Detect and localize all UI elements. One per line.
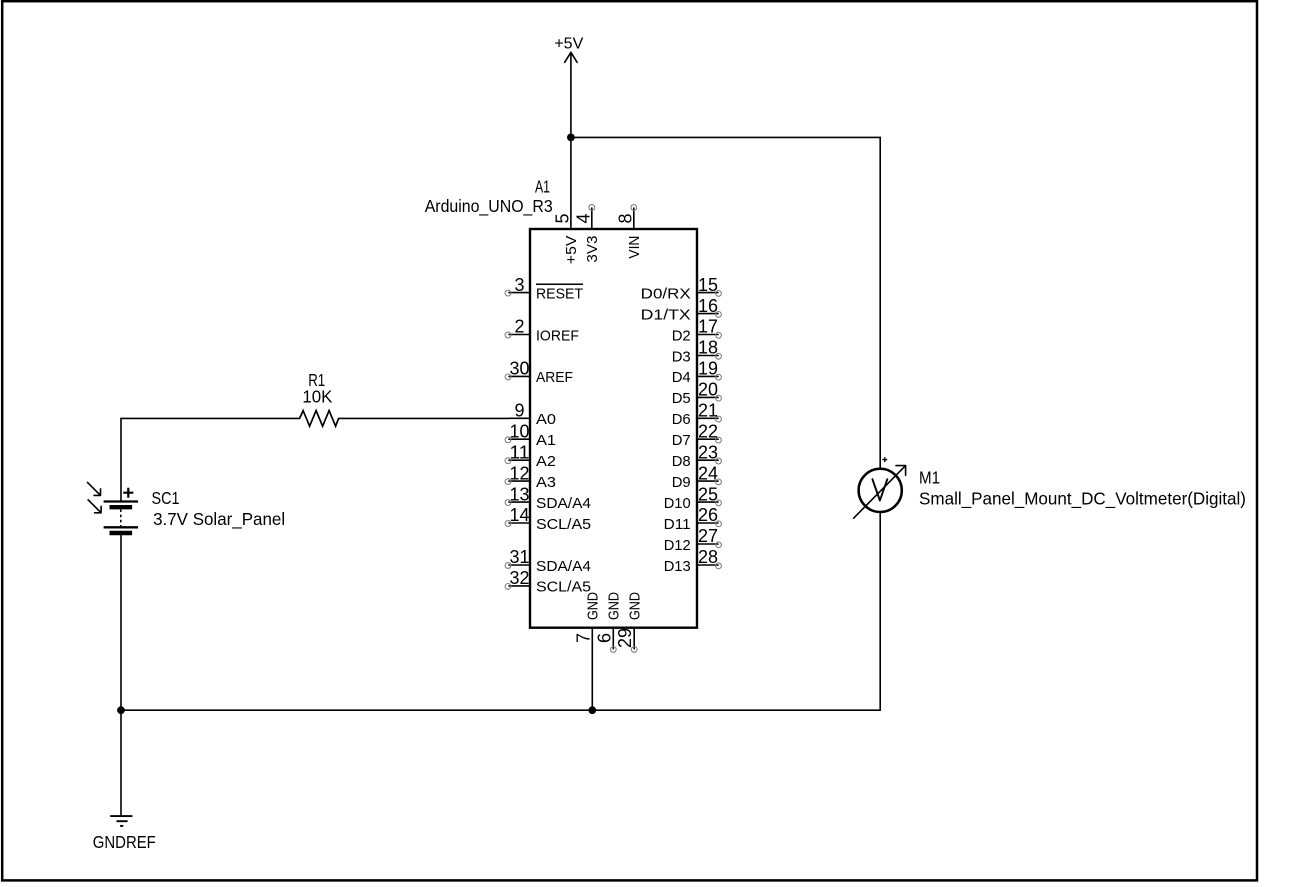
pin 7 (GND) bottom <box>573 592 601 643</box>
svg-text:SCL/A5: SCL/A5 <box>536 516 591 533</box>
svg-text:10: 10 <box>510 421 530 441</box>
svg-text:28: 28 <box>698 547 718 567</box>
svg-text:D7: D7 <box>672 432 691 449</box>
wire solar panel bottom down <box>120 535 122 710</box>
pin 28 (D13) right <box>664 547 722 575</box>
pin 3 (RESET) left <box>505 275 583 303</box>
svg-text:3V3: 3V3 <box>584 236 601 263</box>
svg-text:D4: D4 <box>672 369 691 386</box>
svg-text:24: 24 <box>698 463 718 483</box>
pin 6 (GND) bottom <box>594 592 622 652</box>
svg-text:5: 5 <box>553 213 573 223</box>
pin 2 (IOREF) left <box>505 317 579 345</box>
svg-text:11: 11 <box>510 442 530 462</box>
wire solar panel top to R1 node <box>120 418 122 500</box>
svg-text:+5V: +5V <box>554 36 583 53</box>
svg-text:17: 17 <box>698 317 718 337</box>
svg-text:26: 26 <box>698 505 718 525</box>
pin 32 (SCL/A5) left <box>505 568 591 596</box>
pin 9 (A0) left <box>509 401 556 429</box>
pin 23 (D8) right <box>672 442 722 470</box>
ground GNDREF <box>93 816 156 852</box>
wire to GNDREF <box>120 710 122 815</box>
pin 18 (D3) right <box>672 338 722 366</box>
pin 27 (D12) right <box>664 526 722 554</box>
svg-text:19: 19 <box>698 359 718 379</box>
svg-text:Small_Panel_Mount_DC_Voltmeter: Small_Panel_Mount_DC_Voltmeter(Digital) <box>919 488 1246 509</box>
pin 12 (A3) left <box>505 463 556 491</box>
solar plus sign <box>123 488 133 498</box>
svg-text:A2: A2 <box>536 453 556 470</box>
svg-text:SDA/A4: SDA/A4 <box>536 558 591 575</box>
svg-text:RESET: RESET <box>536 285 583 302</box>
svg-text:D10: D10 <box>664 495 691 512</box>
pin 26 (D11) right <box>664 505 722 533</box>
pin 21 (D6) right <box>672 401 722 429</box>
svg-text:3.7V Solar_Panel: 3.7V Solar_Panel <box>153 509 285 530</box>
svg-text:D12: D12 <box>664 537 691 554</box>
svg-text:D0/RX: D0/RX <box>641 285 691 302</box>
svg-text:18: 18 <box>698 338 718 358</box>
arduino A1 body <box>530 229 697 628</box>
light arrow 1 <box>88 482 101 495</box>
pin 10 (A1) left <box>505 421 556 449</box>
meter arrow <box>854 466 906 519</box>
svg-text:GND: GND <box>626 592 643 620</box>
pin 22 (D7) right <box>672 421 722 449</box>
svg-text:21: 21 <box>698 401 718 421</box>
pin 16 (D1/TX) right <box>641 296 722 324</box>
wire voltmeter bottom vertical <box>879 512 881 710</box>
pin 29 (GND) bottom <box>615 592 643 652</box>
svg-text:AREF: AREF <box>536 369 573 386</box>
wire +5V to voltmeter (horizontal top) <box>571 136 880 138</box>
svg-text:D3: D3 <box>672 348 691 365</box>
svg-text:29: 29 <box>615 628 635 648</box>
svg-text:12: 12 <box>510 463 530 483</box>
svg-text:4: 4 <box>574 213 594 223</box>
svg-text:+5V: +5V <box>563 236 580 265</box>
pin 8 (VIN) top <box>616 205 643 259</box>
wire arduino GND pin7 down <box>591 628 593 711</box>
svg-text:D5: D5 <box>672 390 691 407</box>
pin 17 (D2) right <box>672 317 722 345</box>
pin 31 (SDA/A4) left <box>505 547 591 575</box>
svg-text:SDA/A4: SDA/A4 <box>536 495 591 512</box>
power symbol +5V <box>554 36 583 138</box>
V letter <box>872 479 887 500</box>
svg-text:SCL/A5: SCL/A5 <box>536 579 591 596</box>
svg-text:GND: GND <box>585 592 602 620</box>
voltmeter M1 <box>854 457 1246 518</box>
svg-text:31: 31 <box>510 547 530 567</box>
pin 24 (D9) right <box>672 463 722 491</box>
svg-text:GNDREF: GNDREF <box>93 832 156 852</box>
svg-text:D8: D8 <box>672 453 691 470</box>
svg-text:2: 2 <box>514 317 524 337</box>
pin 19 (D4) right <box>672 359 722 387</box>
svg-text:32: 32 <box>510 568 530 588</box>
svg-text:13: 13 <box>510 484 530 504</box>
svg-text:A1: A1 <box>535 177 550 197</box>
svg-text:A0: A0 <box>536 411 556 428</box>
svg-text:10K: 10K <box>302 387 332 407</box>
svg-text:D1/TX: D1/TX <box>641 306 691 323</box>
svg-text:15: 15 <box>698 275 718 295</box>
svg-text:M1: M1 <box>919 468 940 488</box>
svg-text:GND: GND <box>606 592 623 620</box>
svg-text:3: 3 <box>514 275 524 295</box>
svg-text:D6: D6 <box>672 411 691 428</box>
resistor R1 <box>300 370 339 426</box>
wire R1 left horizontal <box>121 417 300 419</box>
pin 20 (D5) right <box>672 380 722 408</box>
svg-text:16: 16 <box>698 296 718 316</box>
junction +5V node <box>567 134 575 142</box>
pin 15 (D0/RX) right <box>641 275 722 303</box>
svg-text:27: 27 <box>698 526 718 546</box>
voltmeter plus <box>882 457 887 462</box>
svg-text:9: 9 <box>514 401 524 421</box>
svg-text:A1: A1 <box>536 432 556 449</box>
svg-text:30: 30 <box>510 359 530 379</box>
svg-text:7: 7 <box>573 633 593 643</box>
pin 13 (SDA/A4) left <box>505 484 591 512</box>
solar cell SC1 <box>88 482 286 533</box>
pin 14 (SCL/A5) left <box>505 505 591 533</box>
junction GND left <box>117 706 125 714</box>
pin 5 (+5V) top <box>553 137 580 264</box>
junction GND at pin7 <box>588 706 596 714</box>
pin 25 (D10) right <box>664 484 722 512</box>
svg-text:D13: D13 <box>664 558 691 575</box>
svg-text:VIN: VIN <box>626 236 643 259</box>
pin 4 (3V3) top <box>574 205 601 263</box>
svg-text:8: 8 <box>616 213 636 223</box>
wire R1 right to pin A0 <box>339 417 509 419</box>
svg-text:20: 20 <box>698 380 718 400</box>
svg-text:22: 22 <box>698 421 718 441</box>
wire bottom ground bus <box>121 709 880 711</box>
wire voltmeter top vertical <box>879 137 881 469</box>
pin 11 (A2) left <box>505 442 556 470</box>
svg-text:SC1: SC1 <box>152 488 180 508</box>
svg-text:6: 6 <box>594 633 614 643</box>
light arrow 2 <box>88 500 101 513</box>
svg-text:25: 25 <box>698 484 718 504</box>
svg-text:14: 14 <box>510 505 530 525</box>
svg-text:D2: D2 <box>672 327 691 344</box>
svg-text:D9: D9 <box>672 474 691 491</box>
svg-text:Arduino_UNO_R3: Arduino_UNO_R3 <box>425 196 553 217</box>
svg-text:D11: D11 <box>664 516 691 533</box>
pin 30 (AREF) left <box>505 359 573 387</box>
svg-text:A3: A3 <box>536 474 556 491</box>
svg-text:IOREF: IOREF <box>536 327 579 344</box>
svg-text:23: 23 <box>698 442 718 462</box>
